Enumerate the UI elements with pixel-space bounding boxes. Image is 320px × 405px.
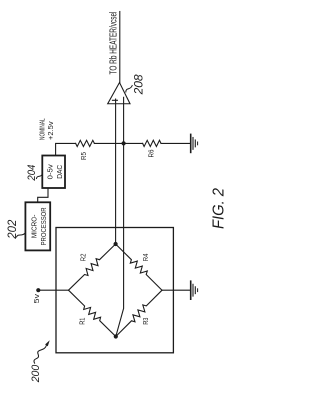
junction dot — [122, 141, 126, 145]
wire DAC to R5 — [56, 143, 76, 155]
svg-text:R1: R1 — [77, 318, 86, 325]
svg-text:+2.5v: +2.5v — [46, 121, 55, 140]
leader squiggle 204 — [37, 175, 43, 179]
svg-text:MICRO-: MICRO- — [30, 214, 39, 238]
svg-text:PROCESSOR: PROCESSOR — [39, 207, 48, 245]
resistor R1 (bridge arm) — [69, 290, 116, 336]
microprocessor box U-202 — [25, 202, 50, 250]
svg-text:NOMINAL: NOMINAL — [37, 118, 46, 140]
svg-text:200: 200 — [30, 364, 42, 383]
ground (R6) — [190, 134, 192, 152]
wire junction to R6 — [124, 142, 143, 144]
leader squiggle 208 — [126, 86, 132, 93]
wire R6 to ground — [161, 142, 191, 144]
svg-text:5v: 5v — [32, 294, 41, 304]
wire bridge right node to op-amp + input — [115, 99, 117, 244]
leader arrow 200 — [34, 345, 46, 363]
svg-text:R3: R3 — [141, 318, 150, 325]
wire bridge left node to op-amp - input — [116, 97, 124, 336]
svg-text:0-5v: 0-5v — [46, 164, 55, 179]
resistor R6 — [143, 140, 161, 146]
svg-text:R4: R4 — [141, 254, 150, 262]
node dot right bridge node — [114, 242, 118, 246]
leader squiggle 202 — [17, 233, 26, 237]
node dot left bridge node — [114, 334, 118, 338]
svg-text:DAC: DAC — [55, 164, 64, 178]
resistor R4 (bridge arm) — [116, 244, 162, 290]
wire R5 to junction — [94, 142, 123, 144]
5v terminal dot — [36, 288, 40, 292]
svg-text:TO Rb HEATER/vcsel: TO Rb HEATER/vcsel — [108, 12, 119, 75]
svg-text:208: 208 — [132, 74, 146, 95]
wire bridge bottom to ground — [162, 289, 191, 291]
svg-text:R2: R2 — [79, 254, 88, 262]
resistor R3 (bridge arm) — [116, 290, 162, 336]
wire microprocessor to DAC — [38, 188, 48, 202]
resistor R2 (bridge arm) — [69, 244, 116, 290]
resistor R5 — [76, 140, 95, 146]
output wire — [119, 12, 121, 83]
wire 5v to bridge top — [38, 289, 68, 291]
svg-text:R6: R6 — [146, 150, 155, 158]
bridge enclosure box — [56, 228, 173, 353]
op-amp 208 triangle — [108, 83, 130, 104]
DAC box U-204 — [42, 156, 65, 189]
svg-text:R5: R5 — [79, 152, 88, 160]
ground (bridge) — [190, 281, 192, 299]
svg-text:FIG. 2: FIG. 2 — [211, 188, 228, 229]
op-amp plus sign — [112, 99, 117, 101]
